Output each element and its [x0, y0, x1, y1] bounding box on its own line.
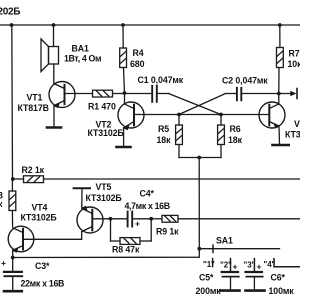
svg-text:R9 1к: R9 1к: [156, 227, 179, 237]
node R6 top: [219, 113, 223, 117]
terminal stub above VT5: [74, 188, 90, 207]
node VT5 base / C4 / R8: [109, 217, 113, 221]
wire C1 cross-coupling diagonal to VT3 base node: [169, 94, 222, 115]
svg-text:VT1: VT1: [27, 93, 43, 103]
ground VT1: [47, 126, 61, 129]
svg-text:КТ3102Б: КТ3102Б: [86, 193, 123, 203]
svg-text:R1 470: R1 470: [88, 102, 116, 112]
svg-text:+: +: [1, 258, 6, 268]
svg-text:4,7мк x 16В: 4,7мк x 16В: [125, 201, 170, 211]
svg-text:202Б: 202Б: [0, 7, 20, 18]
svg-text:+: +: [233, 262, 238, 272]
switch SA1 common line: [199, 248, 279, 250]
switch SA1 contact 1: [212, 259, 214, 267]
svg-text:C4*: C4*: [140, 189, 155, 199]
wire bottom rail to SA1: [13, 249, 200, 258]
svg-text:680: 680: [130, 59, 145, 69]
svg-text:VT3: VT3: [294, 119, 300, 129]
svg-text:R2 1к: R2 1к: [22, 165, 45, 175]
wire link down to SA1: [198, 158, 200, 249]
transistor VT5: [77, 206, 111, 240]
svg-text:10к: 10к: [288, 59, 301, 69]
svg-text:VT5: VT5: [96, 182, 112, 192]
resistor R1: [93, 90, 125, 97]
node R7/C2/VT3 collector: [277, 92, 281, 96]
resistor R2: [13, 176, 44, 183]
svg-text:100мк: 100мк: [269, 286, 295, 296]
svg-text:КТ315: КТ315: [285, 130, 300, 140]
svg-text:R4: R4: [133, 48, 144, 58]
switch SA1 wiper tick: [212, 245, 214, 252]
node R1/R4/VT2 collector/C1: [123, 91, 127, 95]
resistor R7: [277, 25, 284, 94]
svg-text:200мк: 200мк: [196, 286, 222, 296]
speaker BA1: [41, 25, 59, 84]
wire left branch vertical: [11, 25, 14, 179]
wire R5/R6 common link: [179, 157, 221, 159]
resistor R3: [9, 179, 16, 227]
resistor R6: [218, 115, 225, 158]
svg-text:C5*: C5*: [199, 273, 214, 283]
ground C6: [246, 289, 265, 292]
svg-text:18к: 18к: [228, 135, 243, 145]
transistor VT4: [8, 226, 81, 257]
wire R2 to right edge: [44, 178, 301, 180]
capacitor C1: [125, 86, 169, 102]
svg-text:КТ3102Б: КТ3102Б: [21, 213, 58, 223]
svg-text:R5: R5: [158, 124, 169, 134]
svg-text:R7: R7: [289, 49, 300, 59]
svg-text:"3": "3": [244, 261, 256, 270]
node top rail / R7 branch: [278, 23, 282, 27]
ground VT3: [273, 144, 289, 147]
node top rail / left branch: [10, 23, 14, 27]
capacitor C2: [226, 88, 279, 101]
svg-text:C2 0,047мк: C2 0,047мк: [222, 76, 268, 86]
svg-text:22мк x 16В: 22мк x 16В: [21, 279, 65, 289]
node top rail / R4 branch: [121, 23, 125, 27]
svg-text:SA1: SA1: [216, 236, 233, 246]
wire output terminal arrow: [279, 89, 297, 99]
svg-text:VT4: VT4: [32, 203, 48, 213]
transistor VT2: [118, 93, 179, 146]
svg-text:C1 0,047мк: C1 0,047мк: [138, 75, 184, 85]
svg-text:1Вт, 4 Ом: 1Вт, 4 Ом: [64, 54, 101, 64]
capacitor C4: [111, 212, 152, 227]
node R5-R6 link center: [197, 156, 201, 160]
svg-text:КТ817В: КТ817В: [18, 103, 49, 113]
resistor R9: [151, 215, 178, 222]
svg-text:+: +: [257, 262, 262, 272]
switch SA1 contact 4: [274, 259, 300, 267]
wire top supply rail: [0, 24, 300, 26]
svg-text:"1": "1": [203, 260, 215, 269]
svg-text:"4": "4": [264, 260, 276, 269]
svg-text:BA1: BA1: [72, 44, 90, 54]
transistor VT1: [49, 82, 93, 127]
capacitor C5: [222, 272, 239, 289]
capacitor C6: [246, 272, 263, 289]
node C4 out / R8: [149, 217, 153, 221]
resistor R5: [176, 115, 183, 158]
ground VT2: [117, 146, 131, 149]
node VT4 emitter / C3 / bottom rail: [11, 256, 15, 260]
svg-text:C6*: C6*: [271, 273, 286, 283]
svg-text:"2": "2": [220, 261, 232, 270]
ground C5: [221, 289, 240, 292]
switch SA1 contact 2: [230, 259, 232, 272]
node top rail / speaker branch: [52, 23, 56, 27]
svg-text:+: +: [135, 219, 140, 229]
node SA1 common: [197, 247, 201, 251]
switch SA1 contact 3: [253, 259, 255, 272]
node R5 top: [177, 113, 181, 117]
svg-text:R6: R6: [230, 124, 241, 134]
ground C3: [4, 290, 22, 293]
resistor R4: [120, 25, 127, 93]
wire R9 to right edge: [178, 218, 300, 220]
svg-text:18к: 18к: [157, 135, 172, 145]
wire C2 cross-coupling diagonal to VT2 base node: [179, 94, 226, 115]
node R2/R3 junction: [11, 177, 15, 181]
resistor R8: [111, 219, 152, 245]
transistor VT3: [259, 94, 285, 145]
capacitor C3: [4, 258, 22, 291]
svg-text:R8 47к: R8 47к: [112, 245, 140, 255]
svg-text:КТ3102Б: КТ3102Б: [88, 128, 125, 138]
svg-text:C3*: C3*: [35, 261, 50, 271]
wire VT2 base to VT3 base: [179, 114, 269, 116]
